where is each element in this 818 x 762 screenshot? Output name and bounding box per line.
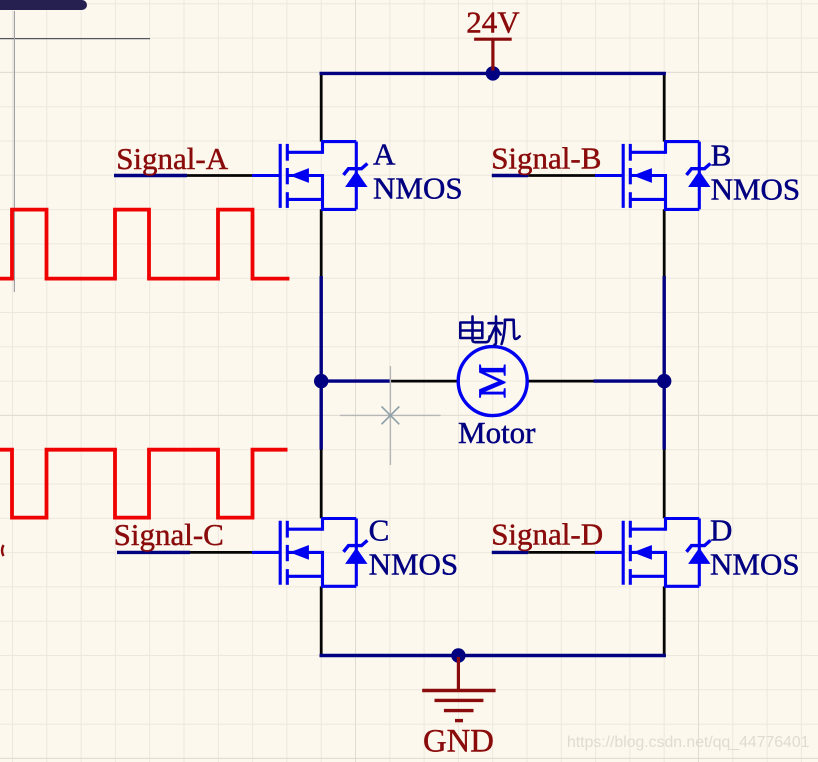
svg-text:NMOS: NMOS <box>710 547 800 582</box>
svg-text:Signal-A: Signal-A <box>116 141 229 176</box>
svg-text:Motor: Motor <box>458 415 536 450</box>
svg-text:24V: 24V <box>466 5 520 40</box>
svg-text:M: M <box>471 364 514 399</box>
svg-text:NMOS: NMOS <box>369 547 459 582</box>
svg-text:GND: GND <box>423 724 494 760</box>
svg-text:NMOS: NMOS <box>711 171 801 206</box>
svg-text:Signal-D: Signal-D <box>491 517 603 552</box>
svg-text:https://blog.csdn.net/qq_44776: https://blog.csdn.net/qq_44776401 <box>567 734 810 751</box>
svg-text:B: B <box>711 138 732 173</box>
svg-text:Signal-C: Signal-C <box>114 517 224 552</box>
svg-text:NMOS: NMOS <box>373 170 463 205</box>
svg-text:A: A <box>373 136 396 171</box>
svg-text:D: D <box>710 512 732 547</box>
svg-text:Signal-B: Signal-B <box>491 141 601 176</box>
svg-text:C: C <box>369 513 390 548</box>
